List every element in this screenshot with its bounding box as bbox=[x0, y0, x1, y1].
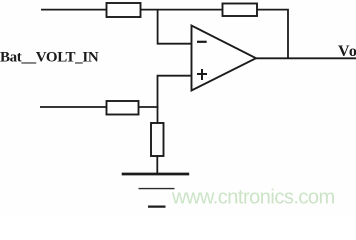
wire: node B down to R4 bbox=[157, 107, 159, 123]
svg-text:Bat__VOLT_IN: Bat__VOLT_IN bbox=[0, 50, 99, 66]
resistor R4 bbox=[151, 123, 164, 156]
op-amp U1 bbox=[192, 26, 257, 91]
wire: R1 to feedback resistor R2 bbox=[141, 9, 224, 11]
wire: R4 to ground bbox=[156, 156, 158, 174]
svg-text:Vo: Vo bbox=[338, 43, 356, 60]
wire: R2 to corner and down to output node bbox=[257, 10, 288, 59]
wire: output bbox=[256, 57, 356, 59]
wire: node A down to inverting input bbox=[158, 10, 192, 44]
svg-text:www.cntronics.com: www.cntronics.com bbox=[171, 187, 335, 209]
wire: top input to R1 bbox=[41, 9, 107, 11]
resistor R2 (feedback) bbox=[223, 4, 258, 17]
wire: node B up to non-inverting input bbox=[158, 76, 191, 107]
wire: R3 to node B bbox=[139, 106, 159, 108]
wire: bottom input to R3 bbox=[40, 106, 107, 108]
ground bbox=[122, 174, 190, 207]
resistor R1 bbox=[107, 3, 141, 17]
pin label: inverting (-) bbox=[197, 41, 207, 43]
resistor R3 bbox=[107, 101, 139, 115]
pin label: non-inverting (+) bbox=[197, 69, 207, 80]
